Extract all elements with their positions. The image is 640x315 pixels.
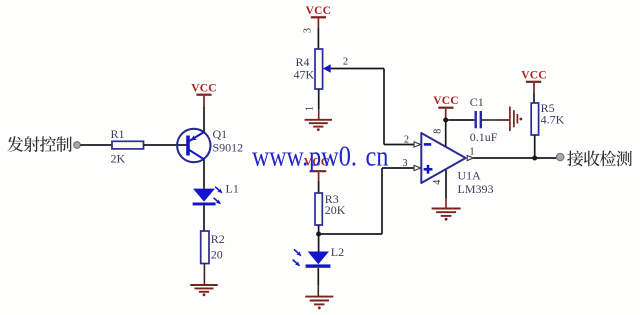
wire VCC to pin 8 — [445, 109, 447, 147]
pin 2 arrow (inverting input) — [414, 142, 421, 147]
svg-text:2: 2 — [404, 135, 409, 146]
watermark www.pw0.cn — [252, 142, 389, 173]
svg-text:4: 4 — [432, 180, 443, 185]
wire L2 to ground — [317, 268, 319, 296]
junction node (R3/L2/pin3) — [316, 232, 321, 237]
power VCC (over R4) — [306, 5, 332, 17]
LED L1 (emitting diode) — [193, 187, 224, 206]
svg-text:cn: cn — [366, 142, 389, 173]
svg-text:1: 1 — [470, 147, 475, 158]
ground (below op-amp) — [432, 209, 461, 221]
pin number 1 (R4 bottom) — [304, 106, 315, 111]
svg-text:1: 1 — [304, 106, 315, 111]
pin number 8 — [433, 129, 444, 134]
label Q1 — [213, 127, 228, 141]
op-amp U1A LM393 — [421, 133, 465, 183]
label R3 — [325, 192, 339, 206]
wire VCC to Q1 emitter — [203, 96, 205, 133]
node 接收检测 (receive-detect label) — [567, 151, 632, 167]
terminal circle (receive detect output) — [557, 153, 564, 160]
label U1A — [458, 169, 482, 183]
svg-text:U1A: U1A — [458, 169, 482, 183]
pin number 2 (wiper) — [343, 57, 348, 68]
value LM393 — [458, 182, 494, 196]
wire R3 to L2 — [318, 225, 320, 252]
power VCC (over R3, behind watermark) — [304, 157, 330, 172]
capacitor C1 — [475, 111, 483, 128]
wire L1 to R2 — [203, 205, 205, 231]
pin 1 arrow (output) — [467, 156, 473, 161]
svg-text:0.1uF: 0.1uF — [470, 130, 498, 144]
wire terminal to R1 — [80, 144, 112, 146]
svg-text:R2: R2 — [211, 232, 225, 246]
ground (rotated, right of C1) — [510, 106, 522, 131]
label R5 — [541, 101, 555, 115]
svg-text:VCC: VCC — [521, 69, 547, 81]
label R2 — [211, 232, 225, 246]
value 4.7K — [541, 113, 565, 127]
node 发射控制 (transmit-control label) — [7, 136, 72, 152]
svg-text:20K: 20K — [325, 203, 346, 217]
label L1 — [226, 182, 239, 196]
svg-text:20: 20 — [211, 248, 223, 262]
power VCC (over pin 8) — [433, 95, 459, 108]
ground (below L2) — [305, 297, 333, 310]
svg-text:3: 3 — [303, 28, 314, 33]
value S9012 — [213, 141, 244, 155]
power VCC (over R5) — [521, 69, 547, 82]
R4 wiper arrow (pin 2) — [323, 64, 331, 72]
pin 3 arrow (non-inverting input) — [414, 165, 421, 170]
value 20 — [211, 248, 223, 262]
svg-text:R1: R1 — [111, 127, 125, 141]
value 20K — [325, 203, 346, 217]
svg-text:VCC: VCC — [306, 5, 332, 17]
wire opamp output to terminal — [473, 157, 556, 159]
wire Q1 collector to L1 — [203, 159, 205, 189]
value 0.1uF — [470, 130, 498, 144]
pin number 1 — [470, 147, 475, 158]
wire R4 bottom to ground — [318, 89, 320, 120]
resistor R5 — [531, 103, 538, 135]
svg-text:2: 2 — [343, 57, 348, 68]
svg-text:VCC: VCC — [191, 83, 217, 95]
wire pin 4 to ground — [445, 170, 447, 208]
svg-text:8: 8 — [433, 129, 444, 134]
potentiometer R4 body — [315, 49, 323, 89]
svg-text:Q1: Q1 — [213, 127, 228, 141]
terminal circle (transmit control input) — [74, 142, 81, 149]
wire pin8 node to C1 — [448, 119, 474, 121]
label R1 — [111, 127, 125, 141]
transistor Q1 S9012 (PNP) — [177, 129, 210, 162]
wire C1 to ground — [482, 119, 509, 121]
svg-text:L1: L1 — [226, 182, 239, 196]
wire VCC to R5 — [533, 83, 535, 103]
wire R1 to Q1 base — [144, 144, 187, 146]
pin number 3 (R4 top) — [303, 28, 314, 33]
svg-text:C1: C1 — [470, 95, 484, 109]
wire junction to opamp pin3 — [319, 168, 414, 234]
wire R2 to ground — [203, 264, 205, 285]
svg-text:L2: L2 — [331, 245, 344, 259]
wire R4 wiper to opamp pin2 — [331, 69, 414, 145]
pin number 4 — [432, 180, 443, 185]
ground (below R2) — [190, 285, 218, 296]
resistor R2 — [201, 231, 209, 264]
svg-text:47K: 47K — [294, 68, 315, 82]
resistor R1 — [112, 141, 144, 149]
wire R5 to output node — [534, 135, 536, 158]
svg-text:3: 3 — [403, 158, 408, 169]
label L2 — [331, 245, 344, 259]
photodiode L2 (receiving) — [293, 249, 331, 268]
pin number 2 — [404, 135, 409, 146]
wire VCC to R4 pin3 — [317, 18, 319, 49]
label C1 — [470, 95, 484, 109]
svg-text:4.7K: 4.7K — [541, 113, 565, 127]
svg-text:2K: 2K — [111, 152, 126, 166]
svg-text:LM393: LM393 — [458, 182, 494, 196]
pin number 3 — [403, 158, 408, 169]
svg-text:pw0.: pw0. — [309, 142, 357, 173]
svg-text:www.: www. — [252, 142, 308, 173]
value 47K — [294, 68, 315, 82]
resistor R3 — [315, 193, 322, 225]
wire VCC to R3 — [318, 172, 320, 193]
svg-text:S9012: S9012 — [213, 141, 244, 155]
power VCC (over Q1) — [191, 83, 217, 95]
value 2K — [111, 152, 126, 166]
junction node (VCC/pin8/C1) — [443, 118, 448, 123]
label R4 — [296, 55, 310, 69]
junction node (R5/output) — [532, 156, 537, 161]
svg-text:VCC: VCC — [433, 95, 459, 107]
ground (below R4) — [305, 120, 333, 131]
